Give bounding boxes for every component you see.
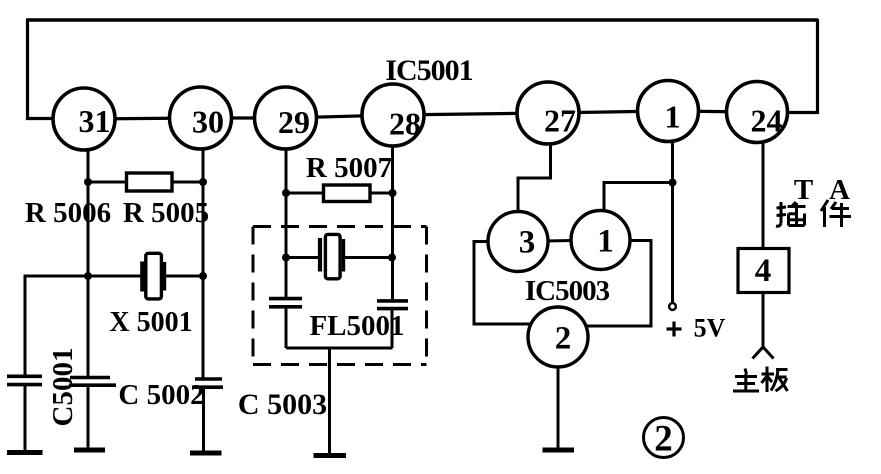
wire pin 30 vertical to C5002 (202, 146, 205, 379)
svg-text:A: A (829, 174, 850, 206)
wire IC5003 pin3 to pin1 (546, 239, 572, 243)
svg-text:28: 28 (389, 106, 421, 142)
IC5001 pin 29 (255, 87, 317, 149)
node junction pin30/R5005 (199, 178, 207, 186)
wire R5007 row (286, 192, 393, 195)
wire pin 29 vertical (285, 146, 288, 348)
svg-text:3: 3 (519, 225, 536, 261)
label R5006 (25, 197, 111, 229)
ground below C5001 left (7, 450, 43, 455)
wire top supply rail (26, 18, 818, 22)
label IC5003 (525, 275, 610, 307)
wire IC5003 left frame (474, 242, 531, 325)
wire pin 28 vertical (391, 144, 395, 348)
svg-text:31: 31 (79, 103, 111, 139)
label C5003 (238, 388, 327, 421)
svg-text:2: 2 (654, 419, 673, 460)
wire pin row bus (56, 111, 786, 119)
wire X5001 row left branch to C5001 (25, 276, 88, 377)
IC5003 pin 2 (528, 307, 588, 367)
node junction pin28/FL5001 (388, 254, 396, 262)
wire IC5003 right frame (585, 241, 651, 327)
wire pin 31 vertical to C5001 (87, 146, 90, 378)
wire pin 24 to connector 4 (762, 141, 765, 249)
label C5002 (118, 379, 204, 411)
label FL5001 (309, 310, 404, 342)
ground below C5002 (190, 451, 222, 456)
ground below C5003 (314, 453, 347, 458)
capacitor FL5001 left (269, 299, 302, 307)
IC5001 pin 24 (727, 82, 788, 143)
capacitor C5001 right section (69, 378, 116, 450)
wire C5003 drop to ground (328, 348, 331, 455)
svg-text:R 5006: R 5006 (25, 197, 111, 229)
svg-text:X 5001: X 5001 (109, 307, 192, 338)
wire pin 27 to IC5003 pin 3 (518, 142, 551, 212)
svg-text:C5001: C5001 (47, 348, 79, 427)
node junction pin29/R5007 (282, 189, 290, 197)
node junction pin28/R5007 (389, 189, 397, 197)
wire IC5003 pin2 to ground (557, 367, 560, 449)
wire R5005 row (88, 181, 203, 184)
wire pin 1 vertical to 5V terminal (671, 140, 674, 303)
node junction pin29/FL5001 (282, 254, 290, 262)
IC5001 pin 1 (638, 81, 699, 142)
wire left rail drop to pin 31 (28, 19, 57, 119)
svg-text:29: 29 (278, 104, 310, 140)
label ban (board) hanzi (762, 367, 788, 393)
node junction pin31/X5001 row (84, 272, 92, 280)
label IC5001 (385, 54, 472, 87)
svg-text:R 5005: R 5005 (123, 197, 209, 229)
dashed box C5003 filter enclosure (253, 227, 427, 365)
label C5001 vertical (47, 348, 79, 427)
svg-text:30: 30 (192, 104, 224, 140)
IC5001 pin 30 (170, 87, 232, 149)
ground below pin31 branch (74, 448, 105, 453)
label cha (insert) hanzi (776, 202, 806, 226)
svg-text:2: 2 (555, 321, 572, 357)
IC5001 pin 27 (517, 82, 579, 144)
IC5003 pin 3 (488, 212, 548, 272)
resistor R5007 (324, 185, 371, 202)
svg-text:T: T (794, 174, 813, 206)
capacitor C5002 (192, 379, 223, 453)
wire connector 4 to mainboard (753, 293, 774, 359)
IC5001 pin 28 (362, 84, 424, 146)
label zhu (main) hanzi (733, 369, 759, 392)
svg-text:R 5007: R 5007 (306, 152, 392, 184)
node junction pin1 branch (669, 179, 677, 187)
node junction pin31/R5005 (84, 178, 92, 186)
label +5V (667, 314, 726, 343)
IC5001 pin 31 (53, 88, 115, 150)
crystal X5001 (143, 253, 165, 299)
label X5001 (109, 307, 192, 338)
wire pin 1 branch to IC5003 pin 1 (604, 183, 673, 212)
label jian (piece) hanzi (821, 200, 851, 227)
svg-text:IC5003: IC5003 (525, 275, 610, 307)
svg-text:27: 27 (544, 103, 576, 139)
svg-text:1: 1 (665, 99, 681, 135)
svg-text:5V: 5V (694, 314, 726, 343)
resistor R5005 (127, 173, 173, 191)
node 5V open terminal (669, 303, 676, 310)
svg-text:C 5002: C 5002 (118, 379, 204, 411)
label T A (794, 174, 850, 206)
connector plug 4 (738, 249, 789, 293)
wire X5001 row (88, 275, 203, 278)
wire FL5001 bottom row (286, 347, 393, 350)
label R5005 (123, 197, 209, 229)
ground below IC5003 pin 2 (543, 448, 575, 453)
svg-text:4: 4 (755, 253, 772, 289)
label circled 2 figure number (644, 418, 684, 460)
capacitor FL5001 right (377, 301, 408, 309)
wire right rail drop to pin 24 (786, 19, 818, 113)
svg-text:C 5003: C 5003 (238, 388, 327, 421)
svg-text:24: 24 (751, 103, 783, 139)
svg-text:IC5001: IC5001 (385, 54, 472, 87)
label R5007 (306, 152, 392, 184)
IC5003 pin 1 (571, 211, 630, 270)
capacitor C5001 left section (7, 376, 42, 452)
crystal FL5001 (320, 234, 344, 278)
node junction pin30/X5001 row (199, 272, 207, 280)
svg-text:FL5001: FL5001 (309, 310, 404, 342)
svg-text:1: 1 (597, 224, 614, 260)
wire FL5001 crystal row (286, 256, 393, 259)
